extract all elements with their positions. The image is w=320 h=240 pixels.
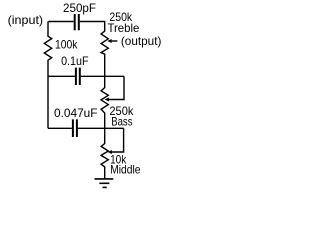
- svg-text:Treble: Treble: [108, 21, 140, 35]
- svg-text:250pF: 250pF: [63, 1, 96, 15]
- svg-text:Bass: Bass: [111, 115, 132, 129]
- svg-text:0.1uF: 0.1uF: [61, 54, 88, 68]
- svg-text:100k: 100k: [55, 37, 78, 51]
- svg-text:Middle: Middle: [110, 163, 141, 177]
- svg-text:(input): (input): [8, 13, 44, 27]
- svg-text:(output): (output): [121, 34, 161, 48]
- svg-text:0.047uF: 0.047uF: [54, 106, 98, 120]
